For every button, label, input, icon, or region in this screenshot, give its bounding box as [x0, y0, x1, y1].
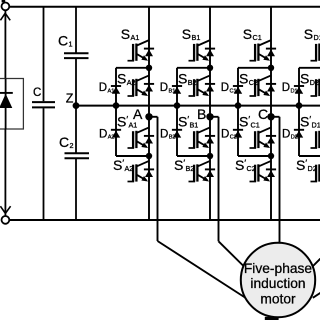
freewheeling diode of S_C1 [266, 49, 276, 57]
label S'_C1 [239, 113, 260, 129]
IGBT S'_D2 (partial at edge) [311, 164, 320, 181]
wire bus of capacitors C1 C2 [75, 7, 77, 220]
label C [33, 87, 41, 99]
current arrow up [0, 13, 10, 20]
junction clamp B to mid rail [174, 102, 181, 109]
label S'_B2 [174, 157, 194, 173]
clamp diode D_B2 [172, 130, 182, 138]
current arrow down [0, 206, 10, 213]
IGBT S'_A1 [128, 127, 150, 148]
label S'_A1 [117, 113, 137, 129]
svg-text:B: B [197, 106, 206, 122]
wire clamp top to leg B [177, 67, 210, 69]
IGBT S'_A2 [128, 161, 150, 182]
svg-text:Five-phase: Five-phase [244, 261, 313, 276]
rectifier block [0, 79, 23, 130]
IGBT S_A2 [128, 75, 150, 96]
IGBT S'_B2 [189, 161, 211, 182]
cropped mark top-left corner [2, 0, 6, 2]
label S'_C2 [235, 157, 256, 173]
junction S_C1/S_C2 [268, 65, 274, 71]
wire clamp bottom to leg A [116, 155, 149, 157]
label D_D1 [282, 82, 298, 94]
freewheeling diode of S_B2 [205, 84, 215, 92]
label S_A1 [121, 26, 140, 42]
label D_B1 [160, 82, 176, 94]
wire clamp column B [176, 68, 178, 156]
wire bus of capacitor C [43, 7, 45, 220]
label D_D2 [282, 128, 298, 140]
wire top terminal to rectifier [4, 10, 6, 78]
motor shaft mark [265, 317, 279, 320]
wire clamp top to leg A [116, 67, 149, 69]
node C (phase output) [267, 113, 274, 120]
clamp diode D_C2 [233, 130, 243, 138]
wire clamp top to leg C [238, 67, 271, 69]
wire phase C to motor [271, 117, 280, 252]
IGBT S_C2 [250, 75, 272, 96]
wire clamp top to leg D [299, 67, 320, 69]
svg-text:Z: Z [66, 92, 74, 106]
five-phase induction motor [241, 243, 315, 317]
node A (phase output) [145, 113, 152, 120]
wire leg B rail [209, 7, 211, 220]
label S'_D1 [300, 113, 320, 129]
rectifier diode [0, 79, 13, 130]
wire clamp bottom to leg B [177, 155, 210, 157]
clamp diode D_A1 [111, 86, 121, 94]
wire clamp column D [298, 68, 300, 156]
freewheeling diode of S'_A1 [144, 136, 154, 144]
label D_B2 [160, 128, 176, 140]
capacitor C1 [64, 53, 89, 58]
clamp diode D_B1 [172, 86, 182, 94]
freewheeling diode of S'_C1 [266, 136, 276, 144]
label phase A [133, 106, 143, 122]
label D_C2 [221, 128, 237, 140]
bottom DC rail (-) [9, 219, 320, 221]
label S_B1 [182, 26, 201, 42]
label C1 [58, 32, 73, 48]
label S_D2 [300, 71, 319, 87]
capacitor C [32, 102, 55, 107]
label S'_D2 [296, 157, 317, 173]
clamp diode D_D1 [294, 86, 304, 94]
junction clamp D to mid rail [296, 102, 303, 109]
wire clamp bottom to leg D [299, 155, 320, 157]
svg-text:C: C [33, 87, 41, 99]
freewheeling diode of S'_B2 [205, 169, 215, 177]
label S_C1 [243, 26, 262, 42]
label S'_B1 [178, 113, 198, 129]
junction S'_C1/S'_C2 [268, 153, 274, 159]
wire phase A to motor [149, 117, 245, 298]
IGBT S'_D1 (partial at edge) [311, 131, 320, 148]
bottom input terminal [2, 216, 10, 224]
mid rail from node Z [76, 105, 320, 107]
top DC rail (+) [9, 6, 320, 8]
wire clamp column A [115, 68, 117, 156]
junction S_B1/S_B2 [207, 65, 213, 71]
junction node Z [73, 102, 80, 109]
wire leg C rail [270, 7, 272, 220]
IGBT S_D2 (partial at edge) [311, 79, 320, 96]
label D_A1 [99, 82, 115, 94]
label S_D1 [304, 26, 320, 42]
wire phase B to motor [210, 117, 243, 266]
freewheeling diode of S'_B1 [205, 136, 215, 144]
clamp diode D_C1 [233, 86, 243, 94]
junction S'_A1/S'_A2 [146, 153, 152, 159]
IGBT S_C1 [250, 40, 272, 61]
wire clamp bottom to leg C [238, 155, 271, 157]
clamp diode D_D2 [294, 130, 304, 138]
freewheeling diode of S_C2 [266, 84, 276, 92]
label S'_A2 [113, 157, 133, 173]
junction S'_B1/S'_B2 [207, 153, 213, 159]
label node Z [66, 92, 74, 106]
wire phase D to motor [311, 255, 320, 268]
freewheeling diode of S_B1 [205, 49, 215, 57]
clamp diode D_A2 [111, 130, 121, 138]
freewheeling diode of S_A2 [144, 84, 154, 92]
IGBT S_D1 (partial at edge) [311, 44, 320, 61]
IGBT S'_C2 [250, 161, 272, 182]
junction S_A1/S_A2 [146, 65, 152, 71]
wire phase E to motor [313, 291, 320, 298]
IGBT S_A1 [128, 40, 150, 61]
IGBT S_B2 [189, 75, 211, 96]
junction clamp A to mid rail [113, 102, 120, 109]
label S_A2 [117, 71, 136, 87]
top input terminal [2, 3, 10, 11]
label S_B2 [178, 71, 197, 87]
IGBT S'_B1 [189, 127, 211, 148]
label D_A2 [99, 128, 115, 140]
svg-text:A: A [133, 106, 143, 122]
IGBT S'_C1 [250, 127, 272, 148]
label D_C1 [221, 82, 237, 94]
wire rectifier to bottom terminal [4, 129, 6, 216]
freewheeling diode of S'_C2 [266, 169, 276, 177]
IGBT S_B1 [189, 40, 211, 61]
capacitor C2 [65, 153, 90, 158]
node B (phase output) [206, 113, 213, 120]
label phase B [197, 106, 206, 122]
svg-text:motor: motor [260, 292, 296, 307]
freewheeling diode of S_A1 [144, 49, 154, 57]
freewheeling diode of S'_A2 [144, 169, 154, 177]
wire clamp column C [237, 68, 239, 156]
svg-text:induction: induction [250, 276, 305, 291]
label C2 [59, 134, 74, 150]
label S_C2 [239, 71, 258, 87]
wire leg A rail [148, 7, 150, 220]
svg-text:C: C [258, 106, 268, 122]
junction clamp C to mid rail [235, 102, 242, 109]
label phase C [258, 106, 268, 122]
